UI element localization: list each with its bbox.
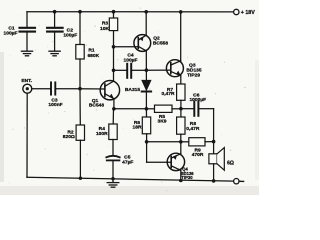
svg-text:0,47R: 0,47R [186,126,200,132]
ground (below C5 on bottom rail) [107,179,119,188]
capacitor C1 [20,12,36,51]
wire: Q3 collector to rail [180,12,182,61]
resistor R7 [177,84,185,109]
wire: stub after terminal [240,180,243,182]
svg-text:R3: R3 [102,21,109,27]
wire: +V top rail [27,11,233,13]
svg-text:100R: 100R [96,131,108,137]
wire: Q3 emitter to R7 [180,76,182,84]
capacitor C4 [114,64,147,78]
wire: Q1 collector to Q2 base [114,46,139,48]
resistor R6 [142,109,150,142]
svg-text:BC558: BC558 [153,41,169,47]
svg-text:TIP30: TIP30 [181,175,193,180]
svg-text:18R: 18R [133,125,142,131]
wire: Q4 collector to bottom rail [180,170,182,180]
svg-text:100µF: 100µF [63,32,77,38]
transistor Q2 [134,35,151,52]
svg-text:BC548: BC548 [89,103,105,109]
wire: output column to speaker [213,109,215,154]
resistor R1 [76,12,84,89]
ground (below C1) [21,51,32,56]
paper speckle [8,8,251,192]
wire: base node to Q1 [80,88,105,90]
wire: mid node horizontal (Q1 emitter to diode node) [114,108,147,110]
wire: R6/R8 bottom node [147,141,181,143]
wire: node to Q3 base [146,69,170,71]
svg-text:0,47R: 0,47R [161,91,175,97]
transistor Q3 [166,60,183,77]
wire: Q2 emitter to rail [145,12,147,35]
resistor R2 [76,89,84,178]
wire: bottom rail [27,177,234,181]
svg-text:3K9: 3K9 [158,119,167,125]
svg-text:680K: 680K [87,53,99,59]
resistor R5 [146,105,181,112]
wire: Q2 collector down to diode [145,51,147,80]
capacitor C6 [181,102,214,116]
svg-text:1000µF: 1000µF [189,97,206,103]
paper edge shading [0,0,259,195]
svg-text:470R: 470R [192,152,204,158]
diode D1 BA315 [142,80,151,109]
wire: Q4 emitter up [180,142,182,154]
resistor R4 [109,109,117,155]
wire: Q1 emitter down [113,99,115,109]
resistor R3 [109,12,117,31]
wire: Q1 collector column [113,31,115,82]
svg-text:R1: R1 [88,48,95,54]
resistor R8 [177,109,185,142]
ground (below C2) [49,51,60,56]
svg-text:47µF: 47µF [122,159,133,165]
capacitor C3 [51,82,80,94]
capacitor C2 [47,12,63,51]
svg-text:10K: 10K [100,26,109,32]
transistor Q1 [100,81,119,100]
svg-text:+ 18V: + 18V [241,10,255,16]
terminal 0V [234,179,239,184]
transistor Q4 [167,153,184,170]
svg-text:820Ω: 820Ω [63,134,75,140]
svg-text:TIP29: TIP29 [187,72,200,78]
wire: L to Q4 base [147,142,172,162]
svg-text:6Ω: 6Ω [227,161,234,167]
svg-text:100nF: 100nF [48,102,62,108]
component value labels [4,10,256,180]
svg-text:Q2: Q2 [153,35,160,41]
svg-text:100µF: 100µF [4,30,18,36]
svg-text:100µF: 100µF [124,58,138,64]
terminal +18V [234,9,239,14]
speaker LS1 [209,148,224,181]
svg-text:ENT.: ENT. [21,78,32,84]
input jack ENT [23,84,50,177]
svg-text:BA315: BA315 [125,87,141,93]
capacitor C5 [106,156,119,179]
resistor R9 [181,138,214,146]
